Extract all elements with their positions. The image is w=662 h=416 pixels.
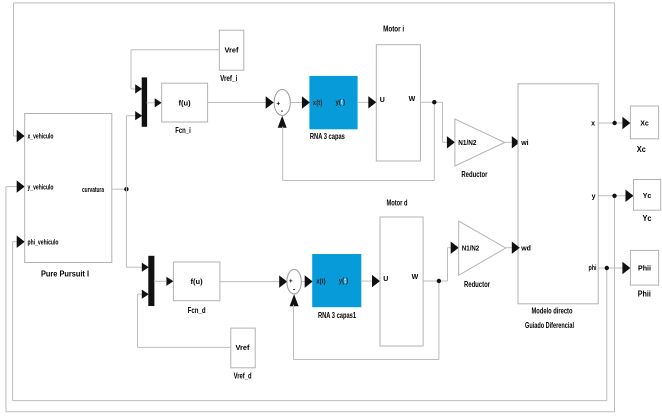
svg-text:Phii: Phii xyxy=(638,290,651,299)
svg-text:x: x xyxy=(591,120,595,127)
svg-text:phi: phi xyxy=(589,265,597,272)
svg-text:y: y xyxy=(592,194,596,201)
svg-text:phi_vehiculo: phi_vehiculo xyxy=(28,239,59,246)
svg-text:Vref: Vref xyxy=(236,345,251,352)
svg-text:N1/N2: N1/N2 xyxy=(458,140,476,147)
svg-text:y(t): y(t) xyxy=(339,278,349,285)
svg-text:Vref: Vref xyxy=(225,47,240,54)
svg-text:Fcn_d: Fcn_d xyxy=(188,306,206,315)
svg-text:wi: wi xyxy=(520,140,528,147)
svg-text:U: U xyxy=(380,97,385,104)
svg-text:Motor d: Motor d xyxy=(387,198,408,207)
svg-text:x(t): x(t) xyxy=(316,279,326,286)
svg-text:y(t): y(t) xyxy=(336,100,346,107)
svg-text:Xc: Xc xyxy=(637,145,646,154)
svg-text:Pure Pursuit I: Pure Pursuit I xyxy=(41,270,89,279)
svg-text:U: U xyxy=(383,276,388,283)
svg-text:RNA 3 capas: RNA 3 capas xyxy=(310,132,345,141)
svg-text:y_vehiculo: y_vehiculo xyxy=(28,185,54,192)
svg-text:RNA 3 capas1: RNA 3 capas1 xyxy=(318,311,356,320)
svg-text:Phii: Phii xyxy=(638,266,651,273)
svg-text:Xc: Xc xyxy=(640,121,649,128)
svg-text:Vref_d: Vref_d xyxy=(234,372,252,381)
svg-text:Motor i: Motor i xyxy=(383,24,404,33)
svg-text:x(t): x(t) xyxy=(313,100,323,107)
svg-text:x_vehiculo: x_vehiculo xyxy=(28,134,54,141)
svg-text:Modelo directo: Modelo directo xyxy=(532,306,573,315)
svg-text:Fcn_i: Fcn_i xyxy=(175,126,191,135)
svg-text:Reductor: Reductor xyxy=(461,170,487,179)
svg-text:W: W xyxy=(409,96,416,103)
svg-text:f(u): f(u) xyxy=(179,98,192,107)
svg-text:Yc: Yc xyxy=(643,193,652,200)
svg-text:Guiado Diferencial: Guiado Diferencial xyxy=(525,321,574,330)
svg-text:Vref_i: Vref_i xyxy=(220,74,237,83)
svg-text:+: + xyxy=(289,278,293,285)
svg-text:W: W xyxy=(412,274,419,281)
svg-text:+: + xyxy=(276,101,280,108)
svg-text:wd: wd xyxy=(520,245,531,252)
svg-text:N1/N2: N1/N2 xyxy=(462,246,479,253)
svg-text:Yc: Yc xyxy=(643,214,652,223)
svg-text:Reductor: Reductor xyxy=(464,280,490,289)
svg-text:f(u): f(u) xyxy=(191,277,204,286)
svg-text:curvatura: curvatura xyxy=(82,187,104,194)
